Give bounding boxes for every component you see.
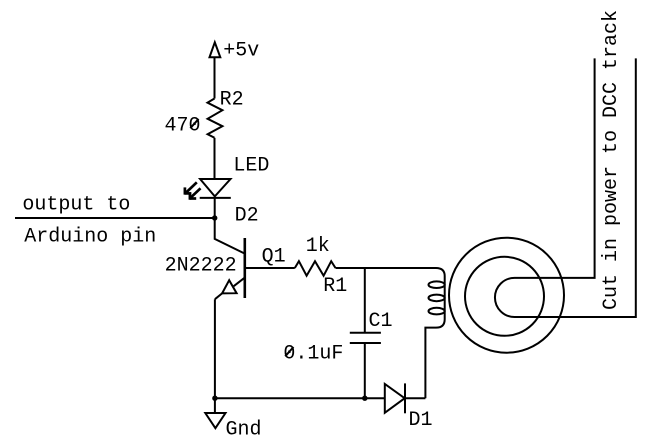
- 0.1uF value label: [283, 342, 343, 365]
- power +5v arrow: [210, 42, 221, 57]
- svg-text:D2: D2: [235, 205, 259, 228]
- svg-text:2N2222: 2N2222: [165, 254, 237, 277]
- svg-text:LED: LED: [233, 155, 269, 178]
- inductor loop 1: [429, 281, 445, 288]
- base wire Q1 to R1: [245, 267, 295, 269]
- LED D2 diode: [200, 179, 231, 198]
- resistor R2: [208, 99, 223, 138]
- svg-text:1k: 1k: [306, 235, 330, 258]
- svg-text:Gnd: Gnd: [226, 418, 262, 441]
- 470 value label: [165, 114, 201, 137]
- LED light arrow 1: [185, 182, 197, 194]
- output wire to Arduino: [15, 217, 215, 219]
- inductor L1 body: [425, 276, 444, 398]
- DCC track loop wire: [495, 58, 636, 317]
- toroid inner circle: [465, 257, 544, 336]
- svg-text:D1: D1: [409, 409, 433, 432]
- junction node LED/output: [212, 215, 217, 220]
- junction node ground: [212, 396, 217, 401]
- svg-text:R2: R2: [220, 88, 244, 111]
- wire node to collector: [215, 218, 245, 254]
- toroid outer circle: [449, 238, 564, 353]
- svg-text:Arduino pin: Arduino pin: [24, 225, 156, 248]
- wire R2 to LED: [214, 138, 216, 179]
- inductor loop 2: [429, 295, 445, 302]
- svg-text:Q1: Q1: [262, 245, 286, 268]
- wire D1 to coil bottom: [405, 397, 425, 399]
- svg-text:470: 470: [165, 114, 201, 137]
- svg-text:Cut in power to DCC track: Cut in power to DCC track: [600, 10, 623, 310]
- wire +5v to R2: [214, 57, 216, 98]
- junction node C1 bottom: [362, 396, 367, 401]
- svg-text:+5v: +5v: [223, 40, 259, 63]
- wire LED to node: [214, 198, 216, 218]
- svg-text:C1: C1: [369, 310, 393, 333]
- capacitor C1: [350, 268, 381, 398]
- wire emitter to ground node: [214, 299, 216, 398]
- svg-text:output to: output to: [22, 193, 130, 216]
- bottom wire: [215, 397, 385, 399]
- LED light arrow 2: [190, 188, 201, 199]
- svg-text:0.1uF: 0.1uF: [283, 342, 343, 365]
- diode D1: [385, 383, 405, 413]
- transistor Q1: [215, 238, 245, 299]
- wire R1 to coil: [336, 268, 445, 276]
- inductor loop 3: [429, 308, 445, 315]
- ground: [205, 398, 225, 428]
- svg-text:R1: R1: [323, 275, 347, 298]
- resistor R1: [295, 261, 336, 276]
